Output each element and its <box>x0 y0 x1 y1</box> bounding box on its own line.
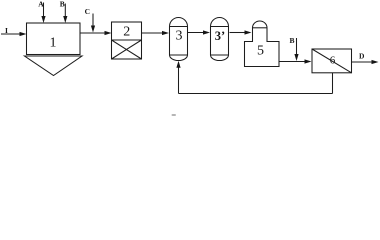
stream B line (into 6) <box>296 38 298 56</box>
svg-text:A: A <box>38 0 44 9</box>
stream A arrowhead <box>41 16 45 23</box>
wire 5 to 6 <box>279 61 305 63</box>
arrowhead into unit 5 <box>245 30 252 34</box>
label 1 <box>50 36 57 51</box>
svg-text:5: 5 <box>257 44 264 59</box>
unit 5 furnace outline <box>245 21 280 67</box>
svg-text:3: 3 <box>176 29 183 44</box>
stream A line <box>43 3 45 18</box>
arrowhead into column 3' <box>203 30 210 34</box>
stream I arrowhead <box>20 32 27 36</box>
wire 1 to 2 <box>80 32 106 34</box>
stream B arrowhead (into 6) <box>294 54 298 61</box>
svg-text:2: 2 <box>123 25 130 40</box>
label B (into 6) <box>289 36 294 45</box>
unit 2 divider <box>112 39 142 41</box>
recycle bottom wire <box>179 93 333 95</box>
svg-text:I: I <box>5 26 8 35</box>
recycle arrowhead into column 3 <box>176 61 180 68</box>
svg-text:1: 1 <box>50 36 57 51</box>
column 3' weld lines <box>211 27 229 56</box>
label D <box>359 52 365 61</box>
wire 6 to D outlet <box>352 61 373 63</box>
arrowhead into unit 6 <box>305 59 312 63</box>
unit 2 outer box <box>112 22 142 59</box>
stream C line <box>92 14 94 28</box>
svg-text:B: B <box>289 36 294 45</box>
label 2 <box>123 25 130 40</box>
label 5 <box>257 44 264 59</box>
unit 1 hopper <box>25 56 83 76</box>
column 3 weld lines <box>170 27 188 56</box>
recycle riser wire <box>178 67 180 94</box>
label A <box>38 0 44 9</box>
recycle drop wire from unit 6 <box>332 73 334 94</box>
scan smudge artifact <box>172 114 177 116</box>
svg-text:B: B <box>60 0 65 9</box>
stream B arrowhead (top) <box>63 16 67 23</box>
label 3' <box>215 29 225 43</box>
label 3 <box>176 29 183 44</box>
svg-text:D: D <box>359 52 365 61</box>
arrowhead into unit 2 <box>105 31 112 35</box>
svg-text:3’: 3’ <box>215 29 225 43</box>
arrowhead into column 3 <box>162 31 169 35</box>
svg-text:C: C <box>85 7 90 16</box>
label 6 <box>330 55 336 67</box>
stream B line (top) <box>64 4 66 18</box>
wire 2 to 3 <box>142 32 164 34</box>
column 3' shell <box>211 18 229 61</box>
unit 5 dome chord <box>253 27 268 29</box>
wire 3' to 5 <box>230 32 246 34</box>
stream I feed line <box>1 33 21 35</box>
unit 6 diagonal <box>312 49 352 73</box>
svg-text:6: 6 <box>330 55 336 67</box>
unit 1 vessel body <box>27 23 81 55</box>
stream C arrowhead <box>91 26 95 33</box>
wire 3 to 3' <box>188 32 205 34</box>
arrowhead D outlet <box>372 60 379 64</box>
label C <box>85 7 90 16</box>
label B (top) <box>60 0 65 9</box>
unit 6 box <box>312 49 352 73</box>
unit 2 cross X <box>112 40 142 59</box>
label I <box>5 26 8 35</box>
column 3 shell <box>170 18 188 61</box>
